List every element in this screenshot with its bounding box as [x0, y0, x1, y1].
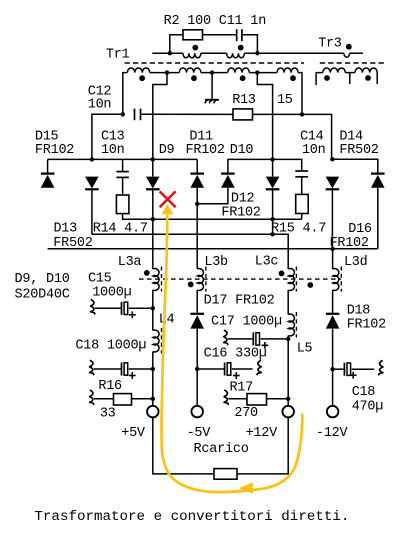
- diode D10: [266, 177, 280, 190]
- wire sec c-d: [249, 72, 277, 74]
- polarity dot Tr1 primary 2: [238, 45, 244, 51]
- wire R16 right: [132, 398, 153, 400]
- svg-text:+5V: +5V: [121, 426, 146, 441]
- wire L4 to C18a node: [152, 352, 154, 370]
- diode D11: [190, 174, 204, 188]
- svg-text:FR102: FR102: [347, 318, 387, 333]
- wire C17 to R17 node: [287, 339, 289, 399]
- ground symbol: [205, 100, 219, 104]
- wire to -5V terminal: [196, 369, 198, 406]
- svg-text:R16: R16: [98, 379, 122, 394]
- junction Sb-D10: [270, 157, 274, 161]
- svg-text:FR502: FR502: [339, 143, 379, 158]
- transformer Tr1 primary winding 1: [183, 53, 201, 58]
- capacitor C18 (1000µ): [122, 363, 128, 376]
- svg-text:R17: R17: [230, 381, 254, 396]
- wire C18b left: [333, 368, 345, 370]
- current arrowhead at fault: [162, 204, 174, 214]
- capacitor C15: [122, 302, 128, 315]
- wire C15 right: [129, 307, 153, 309]
- wire D10 lower: [272, 190, 274, 234]
- wire C16 left: [197, 368, 224, 370]
- wire primary mid: [201, 52, 227, 54]
- diode D17: [190, 314, 204, 329]
- inductor L3d: [333, 269, 339, 291]
- break symbol R16 left: [90, 390, 94, 405]
- junction primary-snubber left: [168, 51, 172, 55]
- svg-text:Tr1: Tr1: [106, 47, 130, 62]
- junction C15 node: [151, 306, 155, 310]
- junction C17 node: [286, 337, 290, 341]
- break symbol R17 left: [224, 390, 228, 405]
- current flow path (orange): [162, 215, 303, 493]
- junction D11-D12 node: [195, 202, 199, 206]
- core L3 dashed vertical d: [340, 267, 342, 292]
- wire Tr3 secondary right stub: [376, 73, 378, 84]
- wire R13 to S4 drop: [253, 113, 303, 115]
- junction Sa-D9: [151, 157, 155, 161]
- svg-text:L3d: L3d: [344, 255, 368, 270]
- wire D9 bus upper: [152, 114, 154, 176]
- diode D18: [326, 314, 340, 329]
- wire D11 to node: [196, 188, 198, 204]
- resistor R16: [114, 394, 132, 405]
- wire to +5V terminal: [152, 399, 154, 406]
- junction C18b node: [330, 367, 334, 371]
- wire R2 to C11: [203, 34, 237, 36]
- inductor L4: [153, 330, 159, 352]
- wire C13 tap: [122, 159, 124, 171]
- break symbol C16 right: [257, 360, 261, 375]
- wire rail R2: [92, 234, 288, 269]
- inductor L3a: [153, 269, 159, 291]
- polarity dot sec a: [139, 75, 145, 81]
- junction node secondary cd: [255, 70, 259, 74]
- wire rail to D14 corner: [302, 114, 332, 159]
- junction Sa-D13: [90, 157, 94, 161]
- inductor L3c: [288, 269, 294, 291]
- wire C18a to R16 node: [152, 369, 154, 399]
- transformer Tr1 primary winding 2: [227, 53, 245, 58]
- svg-text:C18: C18: [352, 385, 376, 400]
- wire load to +12V: [237, 417, 288, 474]
- wire rail Sa: [48, 158, 198, 160]
- break symbol C17 left: [224, 330, 228, 345]
- junction node secondary ab: [165, 70, 169, 74]
- wire Tr3 secondary left stub: [316, 73, 323, 85]
- wire C12 left + drop to D13 bus: [92, 114, 123, 159]
- wire center tap to ground: [211, 73, 213, 100]
- resistor Rcarico: [214, 469, 237, 480]
- svg-text:10n: 10n: [302, 143, 326, 158]
- junction R3-L3d: [330, 247, 334, 251]
- inductor L3b: [197, 269, 203, 291]
- svg-text:L3b: L3b: [204, 255, 228, 270]
- resistor R15: [296, 194, 309, 213]
- capacitor C13: [116, 172, 128, 178]
- junction primary-snubber right: [255, 51, 259, 55]
- wire C17 left: [228, 338, 253, 340]
- junction node secondary bc (grounded): [210, 70, 214, 74]
- svg-text:1000µ: 1000µ: [92, 286, 132, 301]
- wire D9 bus lower: [152, 190, 154, 269]
- svg-text:L3a: L3a: [118, 255, 142, 270]
- wire L3a to C15 node: [152, 290, 154, 308]
- wire rail R3: [48, 248, 378, 250]
- transformer Tr3 secondary winding 1: [323, 68, 346, 73]
- wire R14 to rail R1: [123, 214, 153, 220]
- svg-text:D9, D10: D9, D10: [15, 272, 70, 287]
- svg-text:470µ: 470µ: [352, 399, 384, 414]
- core L4 dashed: [161, 328, 163, 354]
- svg-text:Tr3: Tr3: [318, 36, 342, 51]
- svg-text:C17 1000µ: C17 1000µ: [211, 315, 282, 330]
- junction R1-D10: [270, 217, 274, 221]
- wire primary to Tr3: [244, 52, 344, 54]
- core L5 dashed: [295, 312, 297, 338]
- wire rail Sb (D12 to D10): [228, 159, 302, 173]
- svg-text:D18: D18: [347, 303, 371, 318]
- svg-text:D9: D9: [159, 143, 175, 158]
- svg-text:FR102: FR102: [221, 205, 261, 220]
- polarity dot L3b: [188, 282, 194, 288]
- polarity dot L3d: [307, 282, 313, 288]
- resistor R13: [233, 109, 253, 120]
- wire sec a-b: [150, 72, 180, 74]
- wire rail R1: [123, 218, 302, 220]
- transformer Tr3 primary winding: [344, 53, 350, 57]
- junction R2-D10 end: [270, 232, 274, 236]
- polarity dot Tr1 primary 1: [192, 45, 198, 51]
- wire C13 to R14: [122, 177, 124, 195]
- wire L3c to L5: [287, 290, 289, 315]
- wire D14 leg: [331, 190, 333, 249]
- wire C15node to L4: [152, 308, 154, 330]
- wire D15 top corner: [47, 159, 49, 173]
- break symbol C18a left: [90, 360, 94, 375]
- wire R16 left: [94, 398, 114, 400]
- plus C16: [233, 372, 240, 379]
- junction R13 rail x302: [300, 112, 304, 116]
- capacitor C17: [253, 332, 259, 345]
- wire C15 left: [95, 307, 122, 309]
- diode D16: [371, 174, 385, 188]
- svg-text:D11: D11: [189, 129, 213, 144]
- inductor L5: [288, 314, 294, 336]
- svg-text:D16: D16: [348, 222, 372, 237]
- core L3 dashed vertical c: [295, 267, 297, 292]
- svg-text:D10: D10: [230, 143, 254, 158]
- wire secondary left drop: [123, 73, 128, 115]
- junction Sc-D14: [330, 157, 334, 161]
- wire L3b to D17: [196, 290, 198, 314]
- svg-text:Trasformatore e convertitori d: Trasformatore e convertitori diretti.: [34, 509, 349, 525]
- wire D10 upper: [272, 114, 274, 176]
- wire C14 to R15: [301, 177, 303, 195]
- terminal +5V: [147, 406, 159, 418]
- transformer Tr1 secondary winding b: [179, 68, 201, 73]
- wire C11 to primary: [242, 35, 258, 53]
- transformer Tr3 secondary winding 2: [355, 68, 377, 73]
- svg-text:Rcarico: Rcarico: [194, 442, 249, 457]
- svg-text:C15: C15: [88, 272, 112, 287]
- wire D12 bottom link: [197, 188, 228, 204]
- wire D16 leg: [377, 188, 379, 249]
- plus C18b: [350, 372, 357, 379]
- diode D9: [146, 177, 160, 190]
- wire L3d top: [332, 249, 334, 269]
- svg-text:-5V: -5V: [187, 426, 212, 441]
- polarity dot sec b: [191, 75, 197, 81]
- junction C18a node: [151, 367, 155, 371]
- wire jog node-cd to D10 bus: [257, 73, 272, 115]
- core L3 dashed vertical a: [161, 267, 163, 292]
- diode D13: [85, 177, 99, 190]
- polarity dot L3a: [144, 270, 150, 276]
- junction R16 node: [151, 397, 155, 401]
- core L3 dashed vertical b: [205, 267, 207, 292]
- capacitor C14: [295, 171, 308, 177]
- plus C17: [262, 342, 269, 349]
- svg-text:S20D40C: S20D40C: [15, 288, 70, 303]
- diode D15: [41, 174, 55, 188]
- wire to +12V terminal: [287, 399, 289, 406]
- polarity dot sec c: [240, 75, 246, 81]
- diode D14: [326, 177, 340, 190]
- wire +5V to load: [153, 417, 214, 474]
- svg-text:33: 33: [100, 406, 116, 421]
- svg-text:L3c: L3c: [255, 255, 279, 270]
- wire D13 leg: [91, 190, 93, 234]
- terminal -12V: [327, 406, 339, 418]
- svg-text:R2 100 C11 1n: R2 100 C11 1n: [164, 14, 267, 29]
- polarity dot Tr3 sec 1: [324, 75, 330, 81]
- core Tr1 dashed line: [125, 62, 304, 64]
- svg-text:15: 15: [277, 93, 293, 108]
- wire D11 bus lower: [196, 204, 198, 269]
- plus C15: [129, 311, 136, 318]
- wire C17 right: [261, 338, 289, 340]
- svg-text:L4: L4: [159, 313, 175, 328]
- break symbol C18b right: [379, 360, 383, 375]
- svg-text:D12: D12: [231, 192, 255, 207]
- wire C12 to R13: [142, 113, 234, 115]
- wire C18a left: [94, 368, 122, 370]
- capacitor C12: [135, 109, 141, 121]
- wire L5 to C17 node: [287, 336, 289, 339]
- wire jog node-ab to D9 bus: [153, 73, 167, 115]
- svg-text:270: 270: [234, 406, 258, 421]
- wire R15 to rail R1: [301, 214, 303, 220]
- svg-text:-12V: -12V: [316, 426, 348, 441]
- transformer Tr1 secondary winding a: [127, 68, 150, 73]
- wire to -12V terminal: [332, 369, 334, 406]
- svg-text:FR102: FR102: [35, 143, 75, 158]
- svg-text:D13: D13: [54, 222, 78, 237]
- capacitor C11: [237, 29, 242, 41]
- wire C18b right: [352, 368, 375, 370]
- resistor R17: [247, 394, 267, 405]
- wire primary-snubber loop: [170, 35, 183, 53]
- current arrowhead at load: [239, 482, 253, 493]
- capacitor C18 (470µ): [344, 363, 350, 376]
- wire C18a right: [129, 368, 153, 370]
- wire primary right end: [350, 52, 363, 54]
- transformer Tr1 secondary winding d: [277, 68, 298, 73]
- wire D11 top drop: [196, 159, 198, 173]
- svg-text:+12V: +12V: [246, 426, 278, 441]
- wire D18 to C18b node: [332, 329, 334, 370]
- core Tr3 dashed line: [320, 62, 384, 64]
- polarity dot Tr3 sec 2: [365, 75, 371, 81]
- break symbol C15 left: [91, 300, 95, 315]
- capacitor C16: [225, 363, 231, 376]
- wire R17 left: [229, 398, 248, 400]
- wire D17 to C16 node: [196, 329, 198, 369]
- core L3 dashed horizontal: [139, 278, 341, 280]
- svg-text:L5: L5: [297, 341, 313, 356]
- svg-text:FR102: FR102: [186, 143, 226, 158]
- junction R17 node: [286, 397, 290, 401]
- polarity dot Tr3 primary: [346, 44, 352, 50]
- svg-text:D17 FR102: D17 FR102: [204, 294, 275, 309]
- svg-text:10n: 10n: [88, 98, 112, 113]
- resistor R14: [116, 195, 128, 214]
- resistor R2: [183, 30, 203, 40]
- polarity dot L3c: [279, 271, 285, 277]
- svg-text:R13: R13: [232, 93, 256, 108]
- wire L3d to D18: [332, 290, 334, 314]
- junction C12 node: [121, 112, 125, 116]
- svg-text:C16 330µ: C16 330µ: [204, 347, 267, 362]
- wire C16 right: [232, 368, 253, 370]
- diode D12: [221, 174, 235, 188]
- wire rail Sc (D14 to D16): [332, 159, 377, 173]
- polarity dot sec d: [290, 75, 296, 81]
- wire sec b-c: [201, 72, 228, 74]
- wire secondary right drop: [298, 73, 302, 115]
- wire Tr3 sec mid + center tap stub: [345, 73, 355, 84]
- plus C18a: [129, 372, 136, 379]
- transformer Tr1 secondary winding c: [228, 68, 250, 73]
- junction C16 node: [195, 367, 199, 371]
- wire R17 right: [267, 398, 289, 400]
- svg-text:10n: 10n: [101, 143, 125, 158]
- terminal -5V: [191, 406, 203, 418]
- junction R1-D9: [151, 217, 155, 221]
- terminal +12V: [282, 406, 294, 418]
- svg-text:C18 1000µ: C18 1000µ: [75, 338, 146, 353]
- wire primary line left: [152, 52, 183, 54]
- red cross fault mark: [160, 191, 176, 207]
